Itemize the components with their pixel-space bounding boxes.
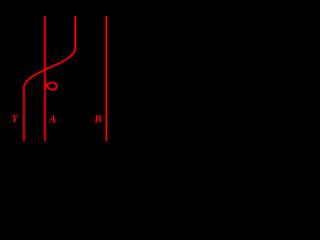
- strand Y (S-curve from top x=75 to bottom x=24): [24, 16, 75, 141]
- curl loop on strand A: [44, 81, 57, 89]
- svg-text:A: A: [48, 115, 56, 126]
- strand Y glow (S-curve): [24, 16, 75, 141]
- strand B glow (right vertical line): [105, 16, 108, 141]
- strand A (middle vertical line): [44, 16, 46, 141]
- strand B (right vertical line): [105, 16, 107, 141]
- curl loop on strand A glow: [44, 81, 57, 89]
- strand A glow (middle vertical line): [44, 16, 47, 141]
- svg-text:Y: Y: [12, 114, 20, 125]
- svg-text:B: B: [93, 115, 102, 126]
